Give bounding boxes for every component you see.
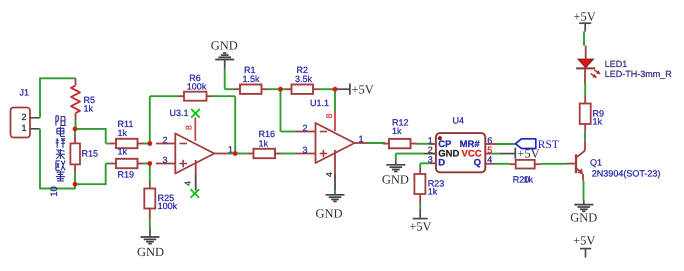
clock dot in U4 (438, 136, 442, 140)
wire GND to R1 (224, 69, 226, 90)
wire J1 pin2 to R5 (39, 78, 41, 118)
svg-text:LED-TH-3mm_R: LED-TH-3mm_R (605, 69, 673, 79)
transistor Q1 base pin (567, 163, 575, 165)
svg-text:R15: R15 (82, 148, 99, 158)
op-amp U1.1 pin2 pin (296, 131, 316, 133)
op-amp U3.1 output pin (214, 153, 228, 155)
op-amp U1.1 pin3 pin (296, 153, 316, 155)
svg-text:100k: 100k (187, 81, 207, 91)
svg-text:3: 3 (162, 155, 167, 165)
wire R15 to bottom node (74, 174, 76, 185)
wire U4 pin5 (492, 153, 501, 155)
node U3.1 output junction (233, 151, 238, 156)
wire R25 to ground (149, 219, 151, 228)
svg-text:+5V: +5V (409, 219, 431, 233)
svg-text:D: D (438, 158, 445, 169)
svg-text:2: 2 (302, 123, 307, 133)
svg-text:4: 4 (324, 172, 334, 177)
resistor R25 100k (149, 183, 151, 189)
LED LED1 (584, 68, 586, 83)
svg-text:1k: 1k (392, 126, 402, 136)
svg-text:GND: GND (211, 38, 238, 52)
wire R16 to U1.1 pin3 (281, 153, 296, 155)
svg-text:R16: R16 (259, 129, 276, 139)
resistor R15 (74, 135, 76, 143)
U4 pin3 stub (430, 162, 436, 164)
svg-text:U1.1: U1.1 (310, 98, 329, 108)
resistor R20 1k (510, 163, 516, 165)
ground below R25 (149, 228, 151, 238)
power +5V right of R2 (335, 88, 350, 90)
power +5V below R23 (419, 209, 421, 218)
IC U4 body (436, 133, 485, 172)
wire U4 pin6 to RST port (496, 143, 516, 145)
wire R5 to node (75, 120, 77, 127)
wire R2 to +5V node (319, 88, 335, 90)
wire U4 pin2 to ground (396, 153, 424, 155)
ground below U1.1 (326, 194, 345, 196)
svg-text:+5V: +5V (573, 234, 595, 248)
wire node to R2 (281, 88, 286, 90)
wire Q1 emitter to ground (583, 181, 585, 201)
wire top node to R11 (75, 128, 106, 130)
op-amp U3.1 pin2 pin (156, 143, 175, 145)
U4 pin4 stub (485, 163, 494, 165)
svg-text:3.5k: 3.5k (295, 74, 313, 84)
svg-text:+5V: +5V (573, 9, 595, 23)
wire feedback left (R6 to pin2 node) (149, 96, 151, 143)
wire J1 pin1 to bottom node (39, 129, 41, 189)
wire feedback right (R6 to output node) (213, 95, 236, 97)
svg-text:1.5k: 1.5k (243, 74, 261, 84)
svg-text:1k: 1k (259, 138, 269, 148)
wire R1/R2 node to U1.1 pin2 (280, 89, 282, 131)
node R15 bottom junction (73, 182, 78, 187)
wire R23 to +5V (419, 204, 421, 210)
svg-text:1k: 1k (428, 186, 438, 196)
op-amp U3.1 pin 8 stub (194, 118, 196, 142)
wire +5V node down to U1.1 pin8 (334, 89, 336, 111)
svg-text:+5V: +5V (517, 146, 539, 160)
node R5/R15/R11 junction (73, 126, 78, 131)
no-ERC X on U3.1 pin 8 (191, 109, 200, 118)
op-amp U1.1 pin 8 stub (334, 111, 336, 131)
svg-text:RST: RST (538, 139, 559, 151)
resistor R23 1k (419, 168, 421, 174)
svg-text:1k: 1k (84, 104, 94, 114)
svg-text:GND: GND (570, 211, 597, 225)
svg-text:8: 8 (184, 125, 194, 130)
wire R1 to node (268, 88, 281, 90)
svg-text:J1: J1 (20, 88, 30, 98)
wire pin3 node to R25 (149, 164, 151, 183)
ground below U4 pin2 (395, 161, 397, 166)
svg-text:GND: GND (137, 245, 164, 259)
svg-text:GND: GND (315, 206, 342, 220)
no-ERC X on U3.1 pin 4 (191, 189, 200, 198)
node U3.1 pin3 junction (147, 161, 152, 166)
svg-text:4: 4 (183, 181, 193, 186)
svg-text:100k: 100k (158, 201, 178, 211)
svg-text:U4: U4 (453, 116, 465, 126)
node R1/R2 junction (278, 87, 283, 92)
U4 pin6 stub (485, 143, 496, 145)
U4 pin5 stub (485, 153, 491, 155)
node U3.1 pin2 junction (147, 141, 152, 146)
wire R9 to LED cathode (584, 84, 586, 97)
resistor R9 1k (584, 124, 586, 131)
U4 pin1 stub (430, 143, 436, 145)
svg-text:1k: 1k (118, 147, 128, 157)
svg-text:1: 1 (359, 134, 364, 144)
wire node to R15 (74, 131, 76, 135)
power +5V top right (584, 23, 586, 31)
transistor Q1 2N3904 (575, 154, 577, 173)
wire U4 pin3 to R23 (420, 162, 430, 164)
op-amp U1.1 body (316, 123, 355, 163)
wire LED anode to +5V (583, 32, 585, 46)
op-amp U3.1 body (175, 134, 214, 174)
svg-text:Q: Q (474, 158, 481, 169)
wire bottom node to R19 (75, 183, 106, 185)
power +5V at U4 pin5 (500, 153, 515, 155)
resistor R5 1k (75, 78, 77, 85)
U4 pin2 stub (GND) (424, 153, 436, 155)
svg-text:8: 8 (324, 113, 334, 118)
svg-text:Q1: Q1 (590, 158, 602, 168)
wire Q1 collector to R9 (584, 131, 586, 141)
wire U4 pin4 to R20 (494, 163, 510, 165)
svg-text:1k: 1k (118, 128, 128, 138)
svg-text:3: 3 (302, 145, 307, 155)
svg-text:GND: GND (382, 172, 409, 186)
svg-text:2N3904(SOT-23): 2N3904(SOT-23) (592, 168, 661, 178)
svg-text:1k: 1k (524, 174, 534, 184)
wire R12 to U4 pin1 (417, 143, 431, 145)
svg-text:LED1: LED1 (605, 59, 628, 69)
svg-text:4: 4 (487, 154, 492, 164)
wire U3.1 output to node (228, 153, 235, 155)
wire R20 to Q1 base (541, 163, 567, 165)
svg-text:1k: 1k (593, 117, 603, 127)
wire R11 to U3.1 pin2 (144, 143, 151, 145)
svg-text:2: 2 (21, 112, 26, 122)
svg-text:2: 2 (162, 135, 167, 145)
node R2/+5V junction (333, 87, 338, 92)
op-amp U3.1 pin 4 stub (195, 160, 197, 175)
svg-text:+5V: +5V (352, 83, 374, 97)
svg-text:R19: R19 (118, 170, 135, 180)
wire R19 to U3.1 pin3 (144, 163, 151, 165)
svg-text:U3.1: U3.1 (170, 108, 189, 118)
op-amp U1.1 pin 4 stub (334, 150, 336, 175)
wire U1.1 pin4 to ground (334, 190, 336, 195)
op-amp U1.1 output pin (355, 142, 368, 144)
svg-text:10: 10 (49, 186, 60, 197)
wire U1.1 output to R12 (368, 142, 386, 144)
ground below Q1 (583, 201, 585, 206)
op-amp U3.1 pin3 pin (156, 163, 175, 165)
port RST (516, 139, 536, 149)
svg-text:1: 1 (21, 123, 26, 133)
